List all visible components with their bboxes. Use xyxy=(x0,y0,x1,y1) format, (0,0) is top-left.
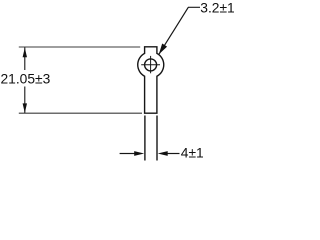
dimension 4±1: right tail line xyxy=(167,153,180,155)
svg-text:21.05±3: 21.05±3 xyxy=(1,72,51,87)
dimension 4±1: left tail line xyxy=(120,153,136,155)
svg-text:3.2±1: 3.2±1 xyxy=(200,0,234,15)
dimension 21.05±3: bottom extension line xyxy=(19,112,142,114)
dimension 4±1: right arrowhead (points left at pin) xyxy=(158,151,168,156)
crosshair horizontal xyxy=(141,64,160,66)
crosshair vertical xyxy=(150,56,152,73)
dimension 21.05±3: vertical dimension line upper segment xyxy=(24,48,26,71)
dimension 21.05±3: top arrowhead xyxy=(23,48,27,58)
leader for 3.2±1: horizontal segment xyxy=(188,6,200,8)
dimension 21.05±3: top extension line xyxy=(19,46,140,48)
hole circle xyxy=(145,59,157,71)
pin right line xyxy=(156,116,158,161)
dimension 21.05±3: vertical dimension line lower segment xyxy=(24,87,26,113)
part body outline (ring-lug terminal: tab, boss, shaft) xyxy=(138,47,164,113)
leader arrowhead at boss xyxy=(159,44,167,55)
pin left line xyxy=(144,116,146,161)
svg-text:4±1: 4±1 xyxy=(181,146,204,161)
dimension 4±1: left arrowhead (points right at pin) xyxy=(134,151,144,156)
leader for 3.2±1: diagonal segment xyxy=(159,7,189,54)
dimension 21.05±3: bottom arrowhead xyxy=(23,103,27,113)
